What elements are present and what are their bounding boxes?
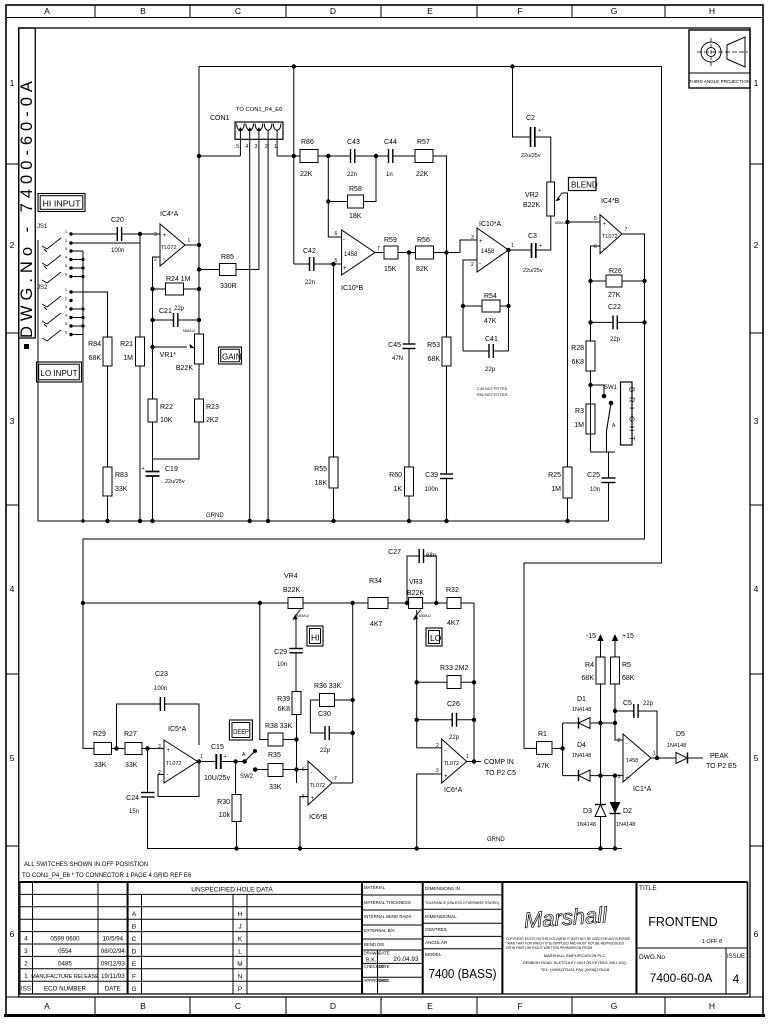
- svg-text:6: 6: [754, 929, 759, 939]
- svg-text:B: B: [132, 924, 136, 931]
- svg-text:TL072: TL072: [166, 761, 182, 767]
- svg-text:B22K: B22K: [523, 202, 540, 209]
- svg-text:-: -: [167, 772, 169, 778]
- svg-text:0485: 0485: [58, 961, 72, 968]
- svg-text:C15: C15: [211, 744, 224, 751]
- svg-text:R3: R3: [575, 408, 584, 415]
- svg-text:22p: 22p: [449, 735, 460, 741]
- svg-text:22p: 22p: [643, 701, 654, 707]
- svg-text:DWG.No - 7400-60-0A: DWG.No - 7400-60-0A: [18, 76, 36, 338]
- svg-text:0599 0600: 0599 0600: [50, 936, 80, 943]
- svg-text:5: 5: [594, 216, 597, 222]
- svg-text:2: 2: [10, 240, 15, 250]
- svg-text:DATE: DATE: [379, 951, 390, 956]
- svg-text:0554: 0554: [58, 948, 72, 955]
- svg-text:R25: R25: [548, 472, 561, 479]
- svg-text:10n: 10n: [277, 662, 287, 668]
- svg-text:F: F: [517, 1001, 522, 1011]
- svg-text:MODEL: MODEL: [425, 952, 442, 957]
- svg-text:1M: 1M: [123, 355, 133, 362]
- svg-text:MDM12: MDM12: [555, 221, 567, 225]
- svg-text:3: 3: [154, 232, 157, 238]
- svg-text:GAIN: GAIN: [222, 353, 242, 362]
- svg-text:09/12/93: 09/12/93: [101, 961, 126, 968]
- svg-text:R21: R21: [120, 341, 133, 348]
- svg-text:+: +: [539, 243, 542, 249]
- svg-text:08/02/94: 08/02/94: [101, 948, 126, 955]
- svg-text:TL072: TL072: [161, 245, 177, 251]
- svg-text:+: +: [224, 754, 227, 760]
- svg-text:+: +: [444, 774, 448, 780]
- svg-text:C22: C22: [608, 304, 621, 311]
- svg-text:R27: R27: [124, 731, 137, 738]
- svg-text:33K: 33K: [115, 486, 128, 493]
- svg-text:68K: 68K: [89, 355, 102, 362]
- svg-text:1N4148: 1N4148: [616, 822, 635, 828]
- svg-text:+: +: [479, 239, 483, 245]
- svg-text:R35: R35: [268, 752, 281, 759]
- svg-text:C29: C29: [274, 649, 287, 656]
- svg-text:DATE: DATE: [379, 978, 390, 983]
- svg-text:FRONTEND: FRONTEND: [648, 915, 717, 929]
- svg-text:22n: 22n: [305, 280, 315, 286]
- svg-text:C25: C25: [587, 472, 600, 479]
- svg-text:7: 7: [377, 246, 380, 252]
- svg-text:22p: 22p: [320, 748, 331, 754]
- svg-text:27K: 27K: [608, 292, 621, 299]
- svg-text:7: 7: [625, 227, 628, 233]
- svg-text:4: 4: [754, 584, 759, 594]
- svg-text:JS2: JS2: [37, 285, 48, 291]
- svg-text:VR3: VR3: [409, 579, 423, 586]
- svg-text:D2: D2: [623, 808, 632, 815]
- svg-text:D4: D4: [577, 742, 586, 749]
- svg-text:4: 4: [24, 936, 28, 943]
- svg-text:-: -: [479, 261, 481, 267]
- svg-text:G: G: [628, 416, 637, 422]
- svg-text:N: N: [238, 974, 243, 981]
- svg-text:C44: C44: [384, 139, 397, 146]
- svg-text:DRAWN: DRAWN: [364, 951, 380, 956]
- svg-text:330R: 330R: [220, 283, 237, 290]
- svg-text:1N4148: 1N4148: [572, 707, 591, 713]
- svg-text:TO CON1_P4_E6 * TO CONNECTOR 1: TO CON1_P4_E6 * TO CONNECTOR 1 PAGE 4 GR…: [22, 873, 192, 879]
- svg-text:ECO NUMBER: ECO NUMBER: [44, 985, 86, 992]
- svg-text:B.K.: B.K.: [366, 958, 377, 964]
- svg-text:15n: 15n: [129, 809, 139, 815]
- svg-text:1N4148: 1N4148: [667, 743, 686, 749]
- svg-text:TL072: TL072: [310, 783, 326, 789]
- svg-text:6: 6: [10, 929, 15, 939]
- svg-text:3: 3: [471, 235, 474, 241]
- svg-text:TO CON1_P4_E6: TO CON1_P4_E6: [236, 107, 282, 113]
- svg-text:SW2: SW2: [240, 774, 254, 780]
- svg-text:GRND: GRND: [206, 513, 224, 519]
- svg-text:R28: R28: [571, 345, 584, 352]
- svg-text:100n: 100n: [425, 487, 438, 493]
- svg-text:1: 1: [200, 754, 203, 760]
- svg-text:82K: 82K: [416, 266, 429, 273]
- svg-text:R85: R85: [221, 254, 234, 261]
- svg-text:3: 3: [10, 416, 15, 426]
- svg-text:R30: R30: [217, 799, 230, 806]
- svg-text:TL072: TL072: [444, 761, 460, 767]
- svg-text:R38 33K: R38 33K: [265, 723, 293, 730]
- svg-text:A: A: [132, 911, 137, 918]
- svg-text:F: F: [517, 6, 522, 16]
- svg-text:MANUFACTURE RELEASE: MANUFACTURE RELEASE: [31, 974, 99, 980]
- svg-text:2: 2: [618, 738, 621, 744]
- svg-text:6K8: 6K8: [278, 706, 291, 713]
- svg-text:B22K: B22K: [407, 590, 424, 597]
- svg-text:68K: 68K: [622, 675, 635, 682]
- svg-text:H: H: [238, 911, 243, 918]
- svg-text:1n: 1n: [386, 172, 393, 178]
- svg-text:10n: 10n: [590, 487, 600, 493]
- svg-text:47K: 47K: [537, 763, 550, 770]
- svg-text:10k: 10k: [219, 812, 231, 819]
- svg-text:6: 6: [335, 231, 338, 237]
- svg-text:C: C: [235, 1001, 241, 1011]
- svg-text:C26: C26: [447, 701, 460, 708]
- svg-text:1458: 1458: [626, 758, 638, 764]
- svg-text:2: 2: [154, 257, 157, 263]
- svg-text:LO: LO: [430, 633, 442, 643]
- svg-text:ISS: ISS: [21, 985, 31, 992]
- svg-text:-: -: [444, 748, 446, 754]
- svg-text:CON1: CON1: [210, 115, 230, 122]
- svg-text:D: D: [330, 6, 336, 16]
- svg-text:1: 1: [188, 238, 191, 244]
- svg-text:R32: R32: [446, 587, 459, 594]
- svg-text:IC6*B: IC6*B: [309, 814, 328, 821]
- svg-text:R56: R56: [417, 237, 430, 244]
- svg-text:C40 NOT FITTED: C40 NOT FITTED: [477, 387, 508, 391]
- svg-text:R22: R22: [160, 404, 173, 411]
- svg-text:COPYRIGHT EXISTS ON THIS DOCUM: COPYRIGHT EXISTS ON THIS DOCUMENT.IT MUS…: [506, 937, 631, 941]
- svg-text:+: +: [626, 776, 630, 782]
- svg-text:1: 1: [653, 751, 656, 757]
- svg-text:-: -: [343, 237, 345, 243]
- svg-text:22p: 22p: [174, 306, 185, 312]
- svg-text:IC1*A: IC1*A: [633, 786, 652, 793]
- svg-text:6: 6: [302, 767, 305, 773]
- svg-text:DWG.No: DWG.No: [639, 954, 665, 961]
- svg-text:R24 1M: R24 1M: [166, 276, 191, 283]
- svg-text:G: G: [611, 6, 618, 16]
- svg-text:BLEND: BLEND: [571, 181, 598, 190]
- svg-text:R54: R54: [484, 293, 497, 300]
- svg-text:TO P2 E5: TO P2 E5: [706, 763, 737, 770]
- svg-text:L: L: [238, 949, 242, 956]
- svg-text:7400 (BASS): 7400 (BASS): [429, 967, 497, 981]
- svg-text:68n: 68n: [426, 553, 436, 559]
- svg-text:DIMENSIONAL: DIMENSIONAL: [425, 914, 457, 919]
- svg-text:6K8: 6K8: [572, 359, 585, 366]
- svg-text:22u/25v: 22u/25v: [165, 479, 185, 485]
- svg-text:-: -: [163, 256, 165, 262]
- svg-text:7400-60-0A: 7400-60-0A: [650, 971, 713, 985]
- svg-text:5: 5: [754, 753, 759, 763]
- svg-text:R33 2M2: R33 2M2: [440, 665, 469, 672]
- svg-text:ANGULAR: ANGULAR: [425, 940, 448, 945]
- svg-text:3: 3: [158, 744, 161, 750]
- svg-text:R59: R59: [384, 237, 397, 244]
- svg-text:5: 5: [236, 144, 239, 150]
- svg-text:COMP IN: COMP IN: [484, 759, 514, 766]
- svg-text:TL072: TL072: [602, 234, 618, 240]
- svg-text:19/11/93: 19/11/93: [101, 973, 125, 980]
- svg-text:GRND: GRND: [487, 837, 505, 843]
- svg-text:1K: 1K: [393, 486, 402, 493]
- svg-text:D: D: [132, 949, 137, 956]
- svg-text:33K: 33K: [94, 762, 107, 769]
- svg-text:HI INPUT: HI INPUT: [43, 200, 81, 209]
- svg-text:MDM12: MDM12: [297, 614, 309, 618]
- svg-text:VR1*: VR1*: [160, 352, 177, 359]
- svg-text:2: 2: [436, 743, 439, 749]
- svg-text:B: B: [628, 387, 637, 392]
- svg-text:D1: D1: [577, 696, 586, 703]
- svg-text:B: B: [140, 6, 146, 16]
- svg-text:C39: C39: [425, 472, 438, 479]
- svg-text:1N4148: 1N4148: [577, 822, 596, 828]
- svg-text:H: H: [709, 6, 715, 16]
- svg-text:2: 2: [754, 240, 759, 250]
- svg-text:D5: D5: [676, 731, 685, 738]
- svg-text:D3: D3: [583, 808, 592, 815]
- svg-text:EXTERNAL B/A: EXTERNAL B/A: [364, 928, 395, 933]
- svg-text:G: G: [611, 1001, 618, 1011]
- svg-text:R57: R57: [417, 139, 430, 146]
- svg-text:DATE: DATE: [105, 985, 121, 992]
- svg-text:IC5*A: IC5*A: [168, 726, 187, 733]
- svg-text:I: I: [628, 407, 637, 409]
- svg-text:3: 3: [24, 948, 28, 955]
- svg-text:2: 2: [24, 961, 28, 968]
- svg-text:C20: C20: [111, 217, 124, 224]
- svg-text:IC10*B: IC10*B: [341, 285, 364, 292]
- svg-text:OR IN PART) WITHOUT WRITTEN PE: OR IN PART) WITHOUT WRITTEN PERMISSION F…: [506, 946, 592, 950]
- svg-text:22K: 22K: [416, 171, 429, 178]
- svg-text:68K: 68K: [582, 675, 595, 682]
- svg-text:3: 3: [754, 416, 759, 426]
- svg-text:R1: R1: [538, 731, 547, 738]
- svg-text:1: 1: [10, 78, 15, 88]
- svg-text:2: 2: [265, 144, 268, 150]
- svg-text:6: 6: [594, 244, 597, 250]
- svg-text:68K: 68K: [428, 356, 441, 363]
- svg-text:22n: 22n: [347, 172, 357, 178]
- svg-text:MDM12: MDM12: [419, 614, 431, 618]
- svg-text:TITLE: TITLE: [639, 885, 657, 892]
- svg-text:DATE: DATE: [379, 964, 390, 969]
- svg-text:TOLERANCE (UNLESS OTHERWISE ST: TOLERANCE (UNLESS OTHERWISE STATED): [425, 900, 500, 905]
- svg-text:C24: C24: [126, 795, 139, 802]
- svg-text:C43: C43: [347, 139, 360, 146]
- svg-text:VR2: VR2: [525, 192, 539, 199]
- svg-text:C3: C3: [528, 233, 537, 240]
- svg-text:JS1: JS1: [37, 224, 48, 230]
- svg-text:R84: R84: [88, 341, 101, 348]
- svg-text:-: -: [311, 770, 313, 776]
- svg-text:R: R: [628, 397, 637, 403]
- svg-text:TEL: (0908)375411 FAX (0908)37: TEL: (0908)375411 FAX (0908)376118: [541, 967, 610, 972]
- svg-text:C19: C19: [165, 466, 178, 473]
- svg-text:+: +: [343, 266, 347, 272]
- svg-text:DIMENSIONS IN: DIMENSIONS IN: [425, 886, 460, 891]
- svg-text:22u/25v: 22u/25v: [523, 268, 543, 274]
- svg-text:R39: R39: [277, 696, 290, 703]
- svg-text:33K: 33K: [269, 784, 282, 791]
- svg-text:-: -: [626, 741, 628, 747]
- svg-text:MATERIAL THICKNESS: MATERIAL THICKNESS: [364, 900, 411, 905]
- svg-text:B22K: B22K: [283, 587, 300, 594]
- svg-text:+15: +15: [622, 633, 634, 640]
- svg-text:G: G: [131, 986, 136, 993]
- svg-text:22K: 22K: [300, 171, 313, 178]
- svg-text:R4: R4: [585, 662, 594, 669]
- svg-text:UNSPECIFIED HOLE DATA: UNSPECIFIED HOLE DATA: [191, 887, 273, 894]
- svg-text:1458: 1458: [481, 249, 495, 255]
- svg-text:1458: 1458: [344, 252, 358, 258]
- svg-text:C: C: [132, 936, 137, 943]
- svg-text:18K: 18K: [315, 480, 328, 487]
- svg-text:CENTRES: CENTRES: [425, 927, 447, 932]
- svg-text:1: 1: [754, 78, 759, 88]
- svg-text:IC6*A: IC6*A: [444, 787, 463, 794]
- svg-text:22u/25v: 22u/25v: [521, 153, 541, 159]
- svg-text:+: +: [163, 233, 167, 239]
- svg-text:+: +: [167, 748, 171, 754]
- svg-text:R34: R34: [369, 578, 382, 585]
- svg-text:2: 2: [471, 262, 474, 268]
- svg-text:+: +: [311, 796, 315, 802]
- svg-text:2K2: 2K2: [206, 417, 219, 424]
- svg-text:R53: R53: [427, 342, 440, 349]
- svg-text:1N4148: 1N4148: [572, 753, 591, 759]
- svg-text:3: 3: [255, 144, 258, 150]
- svg-text:B22K: B22K: [176, 365, 193, 372]
- svg-text:4: 4: [733, 972, 740, 986]
- svg-text:BEND DIE: BEND DIE: [364, 942, 384, 947]
- svg-text:4: 4: [10, 584, 15, 594]
- svg-text:7: 7: [334, 776, 337, 782]
- svg-text:C27: C27: [388, 549, 401, 556]
- svg-text:D: D: [330, 1001, 336, 1011]
- svg-text:A: A: [44, 1001, 50, 1011]
- svg-text:R58: R58: [349, 186, 362, 193]
- svg-text:22p: 22p: [485, 367, 496, 373]
- svg-text:1 OFF 8: 1 OFF 8: [702, 939, 722, 945]
- svg-text:18K: 18K: [349, 213, 362, 220]
- svg-text:VR4: VR4: [284, 573, 298, 580]
- svg-text:SW1: SW1: [604, 385, 618, 391]
- svg-text:A: A: [44, 6, 50, 16]
- svg-text:-: -: [603, 246, 605, 252]
- svg-text:3: 3: [618, 774, 621, 780]
- svg-text:5: 5: [335, 258, 338, 264]
- svg-text:R83: R83: [115, 472, 128, 479]
- svg-text:T: T: [628, 436, 637, 441]
- svg-text:C41: C41: [485, 336, 498, 343]
- svg-text:B: B: [140, 1001, 146, 1011]
- svg-text:IC10*A: IC10*A: [479, 221, 502, 228]
- svg-text:-15: -15: [586, 633, 596, 640]
- svg-text:33K: 33K: [125, 762, 138, 769]
- svg-text:C2: C2: [526, 115, 535, 122]
- svg-text:R55: R55: [314, 466, 327, 473]
- svg-text:1: 1: [466, 754, 469, 760]
- svg-text:+: +: [603, 222, 607, 228]
- svg-text:5: 5: [10, 753, 15, 763]
- svg-text:C30: C30: [318, 711, 331, 718]
- svg-text:+: +: [142, 466, 145, 472]
- svg-text:20.04.93: 20.04.93: [393, 956, 419, 963]
- svg-text:DENBIGH ROAD, BLETCHLEY, MILTO: DENBIGH ROAD, BLETCHLEY, MILTON KEYNES, …: [523, 960, 627, 965]
- svg-text:E: E: [427, 6, 433, 16]
- svg-text:P: P: [238, 986, 242, 993]
- svg-text:1M: 1M: [551, 486, 561, 493]
- svg-text:TO P2 C5: TO P2 C5: [485, 770, 516, 777]
- svg-text:E: E: [427, 1001, 433, 1011]
- svg-text:22p: 22p: [610, 337, 621, 343]
- svg-text:R29: R29: [93, 731, 106, 738]
- svg-text:J: J: [238, 924, 241, 931]
- svg-text:15K: 15K: [384, 266, 397, 273]
- svg-text:4K7: 4K7: [447, 620, 460, 627]
- svg-text:DEEP: DEEP: [233, 727, 249, 736]
- svg-text:R52 NOT FITTED: R52 NOT FITTED: [477, 393, 508, 397]
- svg-text:C21: C21: [159, 308, 172, 315]
- svg-text:E: E: [132, 961, 137, 968]
- svg-text:HI: HI: [311, 633, 320, 643]
- svg-text:C5: C5: [623, 700, 632, 707]
- svg-text:1: 1: [24, 973, 28, 980]
- svg-text:47N: 47N: [392, 356, 403, 362]
- svg-text:ALL SWITCHES SHOWN IN OFF POSI: ALL SWITCHES SHOWN IN OFF POSISTION: [24, 862, 148, 868]
- svg-text:R26: R26: [609, 268, 622, 275]
- svg-text:THIRD ANGLE PROJECTION: THIRD ANGLE PROJECTION: [689, 79, 751, 84]
- svg-text:C23: C23: [155, 671, 168, 678]
- svg-text:ISSUE: ISSUE: [727, 954, 745, 960]
- svg-text:R60: R60: [389, 472, 402, 479]
- svg-text:1: 1: [511, 243, 514, 249]
- svg-text:47K: 47K: [484, 318, 497, 325]
- svg-text:100n: 100n: [111, 248, 124, 254]
- svg-text:C42: C42: [303, 248, 316, 255]
- svg-text:R23: R23: [206, 404, 219, 411]
- svg-text:PEAK: PEAK: [710, 753, 729, 760]
- svg-text:10U/25v: 10U/25v: [204, 775, 231, 782]
- svg-text:IC4*A: IC4*A: [160, 211, 179, 218]
- svg-text:R5: R5: [622, 662, 631, 669]
- svg-text:IC4*B: IC4*B: [601, 198, 620, 205]
- svg-text:MATERIAL: MATERIAL: [364, 885, 386, 890]
- svg-text:10K: 10K: [160, 417, 173, 424]
- svg-text:C45: C45: [388, 342, 401, 349]
- svg-text:LO INPUT: LO INPUT: [41, 369, 78, 378]
- svg-text:F: F: [132, 974, 136, 981]
- svg-text:10/5/94: 10/5/94: [102, 936, 123, 943]
- svg-text:+: +: [538, 128, 541, 134]
- svg-text:H: H: [709, 1001, 715, 1011]
- svg-text:4K7: 4K7: [370, 621, 383, 628]
- svg-text:H: H: [628, 426, 637, 431]
- svg-text:R36 33K: R36 33K: [314, 683, 342, 690]
- svg-text:4: 4: [245, 144, 248, 150]
- svg-text:MDM12: MDM12: [183, 329, 195, 333]
